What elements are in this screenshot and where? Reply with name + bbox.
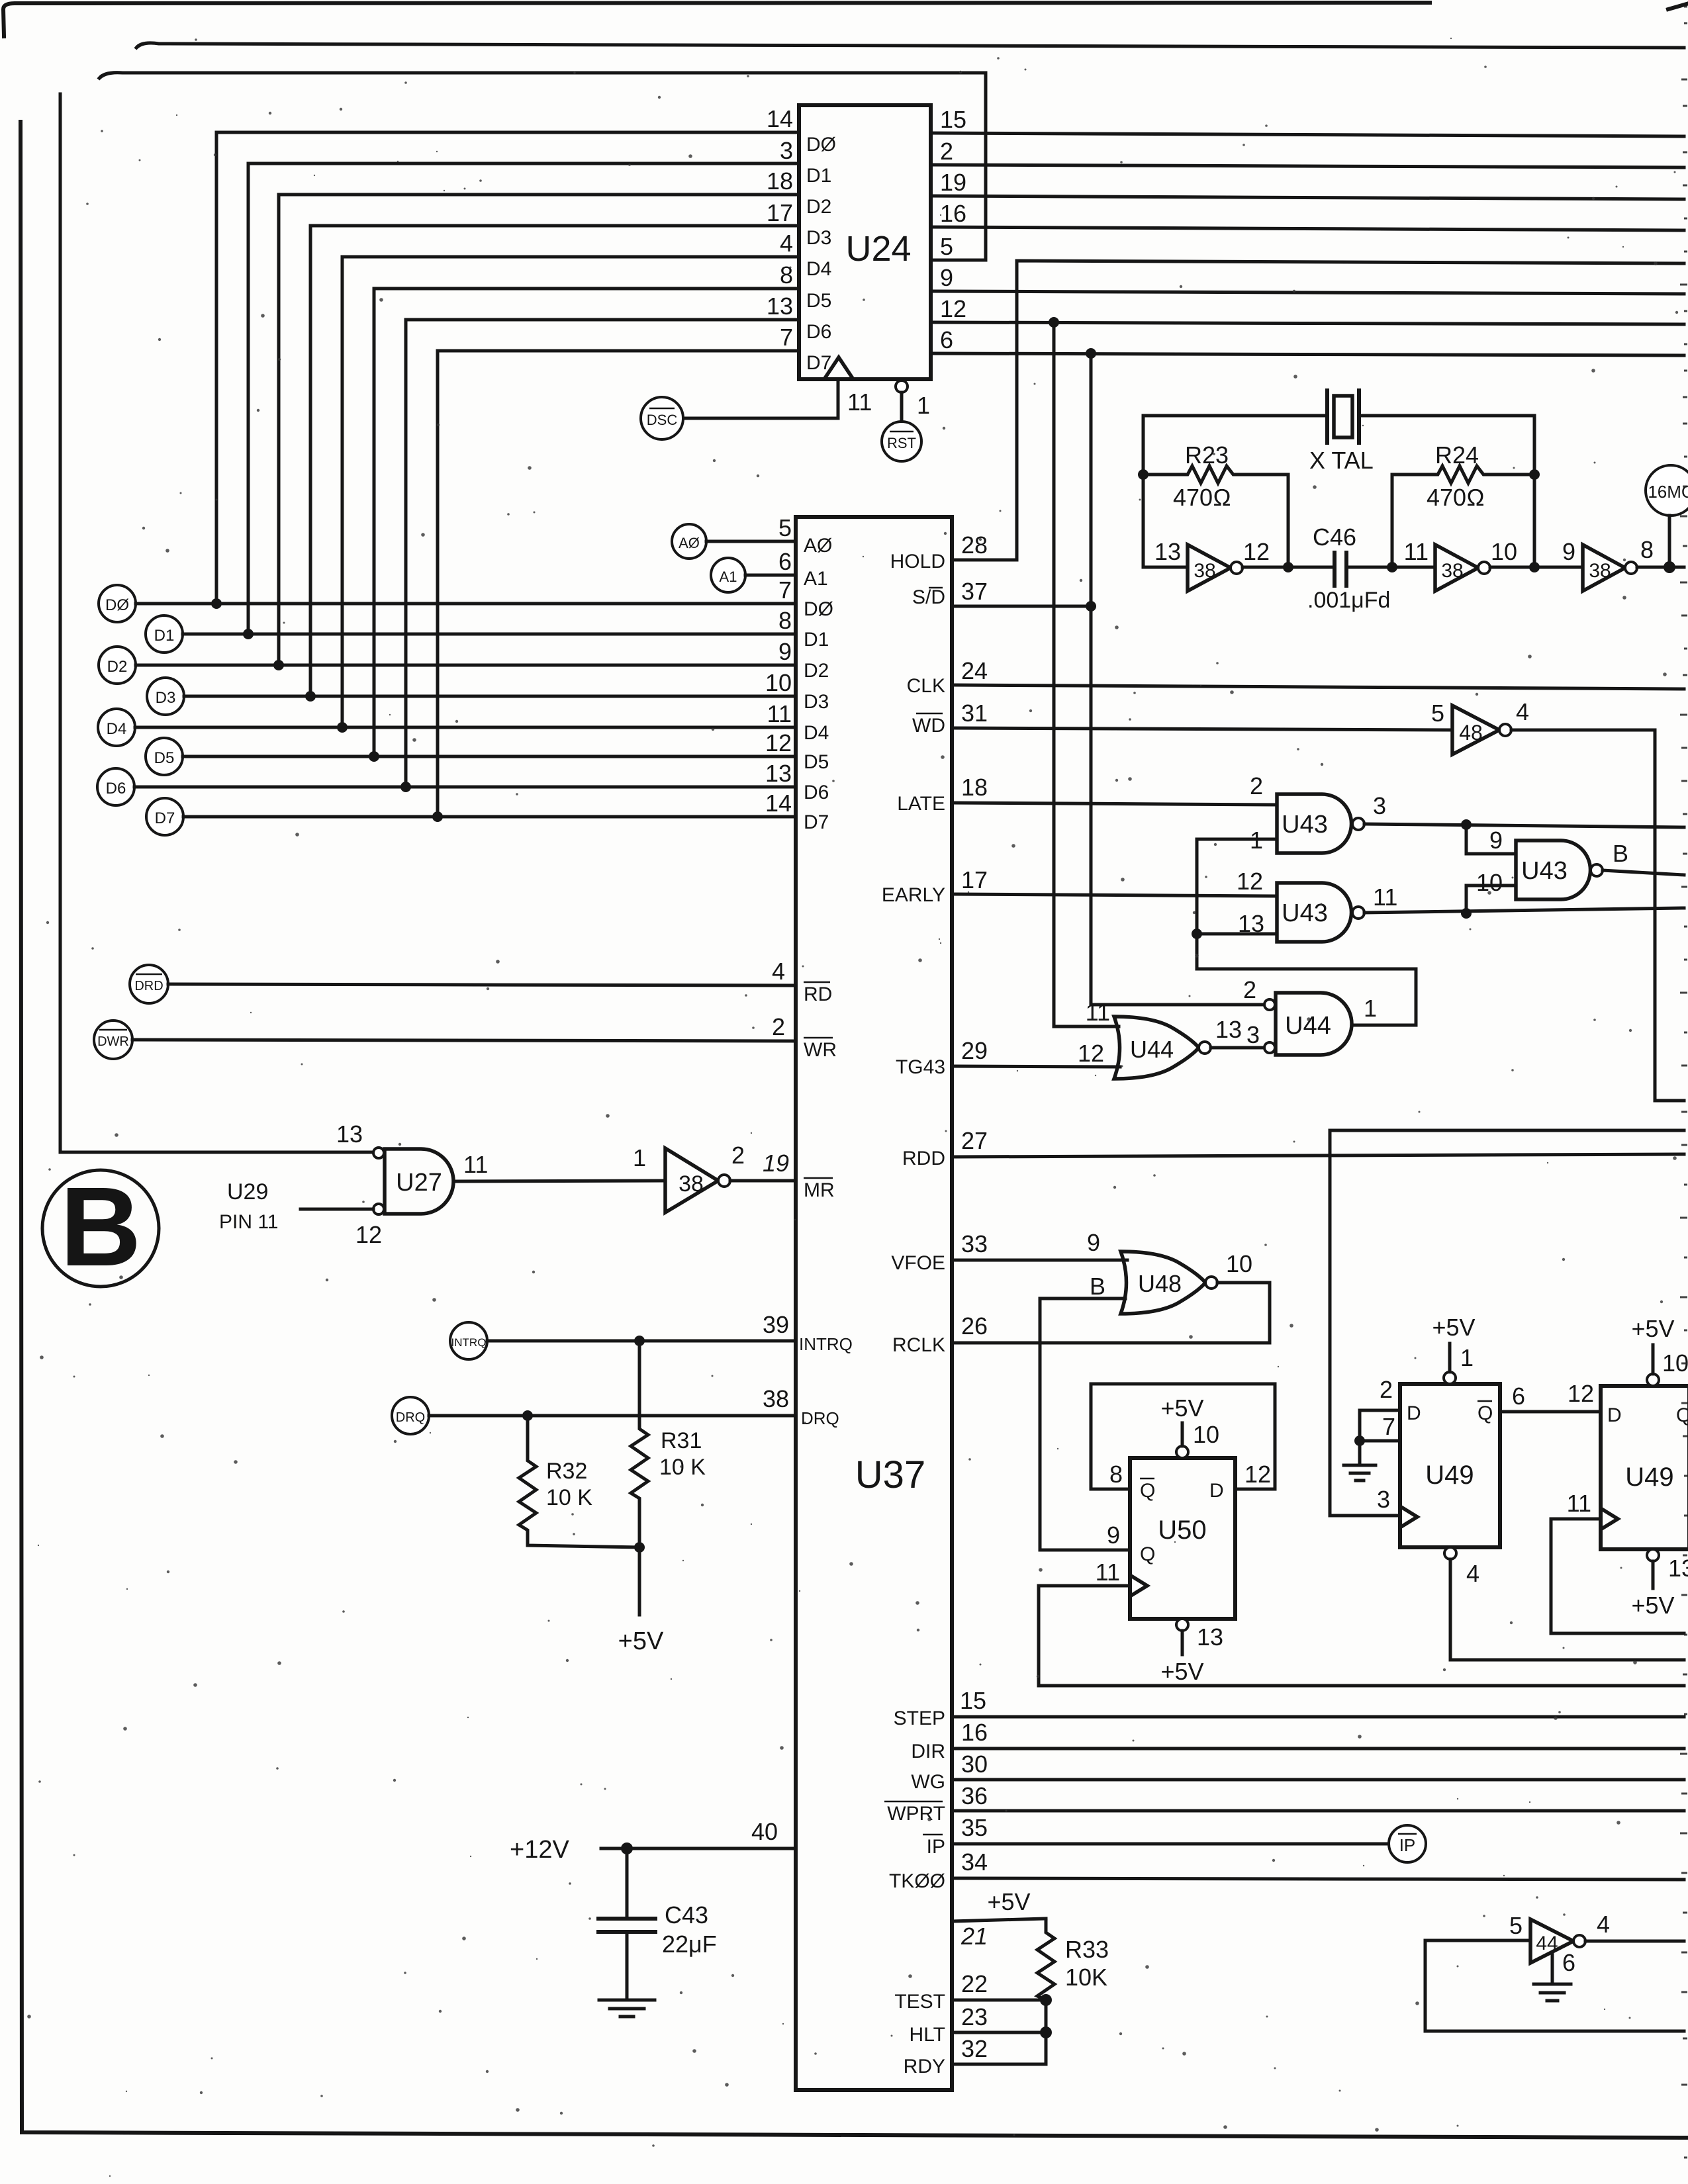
svg-text:D: D: [1607, 1404, 1622, 1426]
wire HLT net U37 pin23: [910, 2003, 1052, 2046]
svg-text:48: 48: [1459, 721, 1483, 745]
wire 16MC net to right edge: [1637, 566, 1684, 569]
svg-text:4: 4: [780, 230, 793, 257]
wire top bus A: [136, 43, 1684, 48]
wire inverter44 output to right edge: [1585, 1940, 1684, 1943]
resistor R33 10K: [1037, 1919, 1109, 2064]
svg-text:14: 14: [765, 790, 792, 817]
capacitor C46 .001uFd: [1307, 523, 1390, 613]
wire RCLK net U37 pin26: [892, 1312, 1270, 1356]
nand U27: [336, 1120, 488, 1248]
wire D3 net: U24 pin17 to bus: [310, 226, 799, 696]
svg-text:PIN 11: PIN 11: [219, 1211, 279, 1233]
svg-text:21: 21: [961, 1923, 988, 1950]
svg-text:U44: U44: [1285, 1012, 1331, 1040]
svg-text:U49: U49: [1625, 1463, 1673, 1492]
svg-text:U24: U24: [845, 229, 911, 269]
svg-text:RD: RD: [804, 983, 832, 1005]
svg-text:DIR: DIR: [911, 1741, 945, 1762]
svg-text:470Ω: 470Ω: [1173, 484, 1231, 511]
svg-text:D2: D2: [804, 660, 829, 682]
svg-text:WD: WD: [912, 715, 945, 737]
inverter 38 osc b (11-10): [1404, 538, 1517, 591]
wire U49a pin4 to right edge: [1444, 1547, 1684, 1660]
wire U49a clock net from right edge: [1330, 1130, 1684, 1516]
wire U43b pin13 input: [1197, 933, 1277, 936]
wire U24 pin12 net to U44 pin11: [931, 322, 1684, 324]
wire LATE net U37 pin18 to U43 pin2: [897, 774, 1277, 815]
svg-text:DRD: DRD: [134, 979, 163, 993]
node RST: U24 pin1 reset: [882, 381, 930, 461]
wire U24 pin16 out: [931, 227, 1684, 230]
wire U27 pin13 input from left bus: [60, 94, 373, 1152]
U24 right pin numbers 15 2 19 16 5 9 12 6: [940, 106, 966, 353]
svg-text:+5V: +5V: [1160, 1394, 1203, 1422]
inverter 38 osc c (9-8): [1562, 536, 1654, 591]
svg-text:RDD: RDD: [902, 1148, 945, 1169]
flip-flop U49 a: [1377, 1376, 1525, 1547]
wire U43c pin9 branch: [1466, 825, 1516, 854]
svg-text:9: 9: [1489, 827, 1503, 854]
svg-text:11: 11: [1404, 538, 1429, 565]
capacitor C43 22uF: [598, 1848, 717, 1999]
wire U49a Q6 to U49b D12: [1500, 1380, 1601, 1412]
svg-text:HLT: HLT: [910, 2024, 945, 2046]
svg-text:1: 1: [917, 392, 930, 419]
power +5V U49b pin13: [1631, 1549, 1688, 1619]
svg-text:MR: MR: [804, 1179, 835, 1201]
ground U49a pins 2,7: [1344, 1441, 1376, 1480]
svg-text:A1: A1: [804, 568, 828, 590]
wire U43b pin11 output to right edge: [1364, 908, 1684, 913]
svg-text:STEP: STEP: [894, 1707, 945, 1729]
wire osc right vertical: [1533, 416, 1536, 567]
svg-text:12: 12: [355, 1221, 382, 1248]
svg-text:D3: D3: [806, 227, 831, 249]
resistor R31 10K pullup: [631, 1341, 706, 1547]
wire U24 pin9 out: [931, 291, 1684, 294]
svg-text:4: 4: [1516, 698, 1529, 725]
wire inverter44 input loop from right edge: [1425, 1940, 1684, 2031]
node INTRQ and wire to U37 pin39: [450, 1311, 853, 1359]
wire EARLY net U37 pin17 to U43 pin12: [882, 866, 1277, 906]
U24 left pin numbers 14 3 18 17 4 8 13 7: [767, 105, 793, 351]
svg-text:7: 7: [780, 324, 793, 351]
svg-text:DØ: DØ: [804, 598, 833, 620]
flip-flop U49 b: [1567, 1386, 1688, 1549]
wire U50 Qbar pin8 to D pin12 feedback: [1091, 1384, 1275, 1489]
svg-text:1: 1: [1460, 1344, 1474, 1371]
wire TK00 net U37 pin34: [889, 1848, 1684, 1892]
svg-text:U37: U37: [855, 1453, 925, 1496]
wire D7 net: U24 pin7 to bus: [438, 351, 799, 817]
svg-text:32: 32: [961, 2035, 988, 2062]
svg-text:4: 4: [1597, 1911, 1610, 1938]
svg-text:1: 1: [633, 1144, 646, 1171]
wire DIR net U37 pin16: [911, 1719, 1684, 1762]
wire U37 pin21 to +5V / R33: [952, 1888, 1046, 1950]
svg-text:DRQ: DRQ: [396, 1410, 425, 1425]
svg-text:7: 7: [778, 576, 792, 604]
svg-text:38: 38: [679, 1171, 704, 1197]
svg-text:D5: D5: [804, 751, 829, 773]
svg-text:40: 40: [751, 1818, 778, 1845]
node A0: [672, 514, 832, 559]
node DSC: U24 pin11 clock input: [641, 379, 872, 439]
svg-text:X TAL: X TAL: [1309, 447, 1374, 474]
node D5: [146, 729, 829, 775]
svg-text:HOLD: HOLD: [890, 551, 945, 572]
svg-text:Q: Q: [1140, 1480, 1155, 1502]
svg-text:D1: D1: [806, 165, 831, 187]
svg-text:13: 13: [1154, 538, 1181, 565]
nand U43 a (pins 2,1 - 3): [1250, 772, 1386, 854]
svg-text:13: 13: [1215, 1016, 1242, 1043]
svg-text:10: 10: [1491, 538, 1517, 565]
svg-text:17: 17: [767, 199, 793, 226]
svg-text:37: 37: [961, 578, 988, 605]
svg-text:3: 3: [780, 137, 793, 164]
svg-text:D6: D6: [106, 780, 126, 797]
svg-text:22μF: 22μF: [662, 1931, 717, 1958]
svg-text:38: 38: [1589, 560, 1611, 582]
svg-text:IP: IP: [927, 1836, 945, 1858]
svg-text:9: 9: [940, 264, 953, 291]
svg-text:D7: D7: [804, 811, 829, 833]
svg-text:U43: U43: [1521, 857, 1568, 885]
svg-text:10 K: 10 K: [659, 1455, 706, 1480]
svg-text:9: 9: [778, 638, 792, 665]
svg-text:D4: D4: [804, 722, 829, 744]
svg-text:4: 4: [772, 958, 785, 985]
svg-text:D7: D7: [806, 352, 831, 374]
wire WPRT net U37 pin36: [884, 1782, 1684, 1825]
wire U49a D pin2 and pin7 tied: [1360, 1410, 1400, 1441]
svg-text:10: 10: [765, 669, 792, 696]
svg-text:13: 13: [767, 293, 793, 320]
wire VFOE net U37 pin33 to U48 pin9: [891, 1229, 1127, 1274]
svg-text:15: 15: [940, 106, 966, 133]
svg-text:DSC: DSC: [647, 412, 678, 428]
svg-text:D5: D5: [806, 290, 831, 312]
ground C43: [599, 2000, 655, 2017]
svg-text:8: 8: [1109, 1461, 1123, 1488]
svg-text:D7: D7: [155, 809, 175, 827]
svg-text:16MC: 16MC: [1648, 482, 1688, 502]
svg-text:12: 12: [1568, 1380, 1594, 1407]
svg-text:INTRQ: INTRQ: [451, 1336, 487, 1349]
svg-text:B: B: [60, 1164, 142, 1290]
svg-text:2: 2: [731, 1142, 745, 1169]
crystal oscillator top wire: [1143, 414, 1327, 418]
svg-text:31: 31: [961, 700, 988, 727]
inverter 48 (WD buffer) pins 5-4: [1431, 698, 1529, 754]
border frame (decorative): [3, 3, 1430, 36]
inverter 38 (MR driver): [633, 1142, 745, 1212]
svg-text:39: 39: [763, 1311, 789, 1338]
svg-text:+5V: +5V: [1432, 1314, 1475, 1341]
svg-text:16: 16: [940, 200, 966, 227]
svg-text:AØ: AØ: [804, 535, 832, 557]
svg-text:26: 26: [961, 1312, 988, 1340]
svg-text:8: 8: [1640, 536, 1654, 563]
wire IP net U37 pin35 to node IP: [923, 1814, 1389, 1858]
svg-text:TG43: TG43: [896, 1056, 945, 1078]
svg-text:TEST: TEST: [894, 1991, 945, 2013]
svg-text:AØ: AØ: [679, 535, 700, 551]
svg-text:RDY: RDY: [904, 2056, 945, 2077]
svg-text:6: 6: [940, 326, 953, 353]
svg-text:D4: D4: [806, 258, 831, 280]
svg-text:D2: D2: [107, 658, 128, 676]
U24 internal labels D0-D7: [806, 134, 836, 374]
svg-text:44: 44: [1536, 1933, 1558, 1954]
svg-text:D2: D2: [806, 196, 831, 218]
node D3: [147, 669, 829, 715]
svg-text:10: 10: [1226, 1250, 1252, 1277]
wire U24 pin15 out: [931, 133, 1684, 136]
svg-text:10: 10: [1193, 1421, 1219, 1448]
svg-text:10 K: 10 K: [546, 1485, 592, 1510]
svg-text:VFOE: VFOE: [891, 1252, 945, 1274]
node D1: [146, 607, 829, 653]
svg-text:A1: A1: [720, 569, 737, 585]
svg-text:10K: 10K: [1065, 1964, 1107, 1991]
wire osc left vertical: [1142, 416, 1145, 567]
nand U44 (pins 2,3 - 1) with input bubbles: [1243, 976, 1377, 1055]
svg-text:12: 12: [940, 295, 966, 322]
svg-text:17: 17: [961, 866, 988, 893]
svg-text:14: 14: [767, 105, 793, 132]
node D0 bus circle and wire to U37 pin7: [99, 576, 833, 622]
svg-text:38: 38: [763, 1385, 789, 1412]
svg-text:9: 9: [1107, 1522, 1120, 1549]
svg-text:WR: WR: [804, 1039, 837, 1061]
svg-text:11: 11: [463, 1151, 488, 1178]
svg-text:S/D: S/D: [912, 586, 945, 608]
wire R23 right to inverter output: [1287, 475, 1290, 567]
svg-text:U50: U50: [1158, 1516, 1206, 1545]
power +5V U49a pin1: [1432, 1314, 1475, 1384]
svg-text:13: 13: [336, 1120, 363, 1148]
wire WG net U37 pin30: [911, 1751, 1684, 1793]
svg-text:U27: U27: [396, 1169, 442, 1197]
inverter 44 (pins 5-4, gnd 6): [1509, 1911, 1610, 1976]
svg-text:33: 33: [961, 1230, 988, 1257]
wire U43a pin3 output to right edge: [1364, 824, 1684, 827]
svg-text:Q: Q: [1140, 1543, 1155, 1565]
svg-text:36: 36: [961, 1782, 988, 1809]
power +5V U50 pin10: [1160, 1394, 1219, 1458]
svg-text:11: 11: [1086, 999, 1110, 1026]
svg-text:D3: D3: [804, 691, 829, 713]
svg-text:+5V: +5V: [618, 1627, 664, 1655]
svg-text:34: 34: [961, 1848, 988, 1876]
svg-text:D5: D5: [154, 749, 175, 767]
node A1: [711, 548, 828, 592]
svg-text:11: 11: [847, 388, 872, 416]
latch U24: [799, 105, 931, 379]
svg-text:4: 4: [1466, 1560, 1479, 1587]
wire D2 net: U24 pin18 to bus: [279, 195, 799, 665]
wire TG43 net U37 pin29 to U44 OR pin12: [896, 1037, 1120, 1078]
wire RDY net U37 pin32: [904, 2035, 1046, 2077]
svg-text:D4: D4: [107, 720, 127, 738]
nand U43 c (pins 9,10 - 8) node B: [1476, 827, 1628, 899]
wire U48 pin B input from U50 Q: [1040, 1298, 1130, 1550]
svg-text:2: 2: [1250, 772, 1263, 799]
wire inverter48 output to right edge: [1511, 730, 1684, 1101]
power +5V for R31/R32: [618, 1542, 664, 1655]
node DWR: wire to U37 WR pin2: [94, 1013, 837, 1061]
svg-text:8: 8: [778, 607, 792, 634]
svg-text:22: 22: [961, 1970, 988, 1997]
svg-text:DWR: DWR: [97, 1034, 129, 1049]
svg-text:16: 16: [961, 1719, 988, 1746]
svg-text:.001μFd: .001μFd: [1307, 588, 1390, 613]
svg-text:30: 30: [961, 1751, 988, 1778]
wire MR net to U37 pin19: [730, 1179, 796, 1183]
resistor R24 470ohm: [1392, 441, 1534, 567]
svg-text:6: 6: [778, 548, 792, 575]
wire CLK net U37 pin24 to right edge: [907, 657, 1684, 697]
svg-text:12: 12: [1244, 1461, 1271, 1488]
svg-text:1: 1: [1364, 995, 1377, 1022]
power +12V to U37 pin40: [510, 1818, 796, 1864]
node DRD: wire to U37 RD pin4: [130, 958, 832, 1005]
wire D4 net: U24 pin4 to bus: [342, 257, 799, 727]
svg-text:WPRT: WPRT: [887, 1803, 945, 1825]
svg-text:11: 11: [1096, 1559, 1120, 1586]
svg-text:INTRQ: INTRQ: [799, 1334, 853, 1354]
svg-text:B: B: [1090, 1273, 1105, 1300]
svg-text:Q: Q: [1676, 1404, 1688, 1426]
svg-text:24: 24: [961, 657, 988, 684]
svg-text:27: 27: [961, 1127, 988, 1154]
node B page label: [42, 1164, 159, 1290]
wire U48 output to RCLK net: [1217, 1283, 1270, 1343]
wire U49b clock pin11 to right edge: [1551, 1519, 1684, 1633]
svg-text:29: 29: [961, 1037, 988, 1064]
wire D0 net: U24 pin14 to bus: [216, 132, 799, 604]
wire U24 pin6 net to U44 pin2: [931, 353, 1684, 355]
svg-text:5: 5: [940, 233, 953, 260]
svg-text:U29: U29: [227, 1179, 268, 1205]
wire U27 out to inverter: [454, 1181, 665, 1181]
svg-text:2: 2: [1380, 1376, 1393, 1403]
wire U44 NOR output to U44 NAND pin3: [1211, 1046, 1264, 1050]
svg-text:3: 3: [1373, 792, 1386, 819]
svg-text:+5V: +5V: [1631, 1315, 1674, 1342]
svg-text:DØ: DØ: [105, 596, 129, 614]
svg-text:11: 11: [1567, 1490, 1591, 1517]
wire D1 net: U24 pin3 to bus: [248, 163, 799, 634]
svg-text:U48: U48: [1138, 1270, 1182, 1297]
wire U43c output B to right edge: [1603, 870, 1684, 875]
power +5V U49b pin10: [1631, 1315, 1688, 1386]
resistor R23 470ohm: [1143, 441, 1288, 511]
svg-text:+5V: +5V: [987, 1888, 1030, 1915]
svg-text:5: 5: [1431, 700, 1444, 727]
node D6: [97, 760, 829, 805]
svg-text:R23: R23: [1185, 441, 1229, 469]
wire D6 net: U24 pin13 to bus: [406, 320, 799, 787]
svg-text:R31: R31: [661, 1428, 702, 1453]
node U29 PIN11 label and wire to U27 pin12: [219, 1179, 373, 1233]
wire S/D net U37 pin37: [912, 578, 1096, 612]
svg-text:13: 13: [765, 760, 792, 787]
node 16MC: [1646, 465, 1688, 567]
svg-text:2: 2: [940, 138, 953, 165]
svg-text:RST: RST: [887, 435, 916, 451]
svg-text:7: 7: [1382, 1413, 1395, 1440]
svg-text:R33: R33: [1065, 1936, 1109, 1963]
svg-text:C46: C46: [1313, 523, 1356, 551]
svg-text:18: 18: [961, 774, 988, 801]
FDC U37: [796, 517, 952, 2090]
svg-text:11: 11: [767, 700, 792, 727]
wire U24 pin2 out: [931, 165, 1684, 167]
svg-text:D1: D1: [154, 627, 175, 645]
crystal XTAL: [1309, 390, 1374, 474]
ground inverter44 pin6: [1534, 1952, 1571, 2001]
svg-text:Q: Q: [1477, 1402, 1493, 1424]
svg-text:28: 28: [961, 531, 988, 559]
svg-text:6: 6: [1562, 1949, 1575, 1976]
svg-text:5: 5: [778, 514, 792, 541]
svg-text:TKØØ: TKØØ: [889, 1870, 945, 1892]
svg-text:+5V: +5V: [1631, 1592, 1674, 1619]
svg-text:B: B: [1613, 840, 1628, 867]
svg-text:D: D: [1209, 1480, 1224, 1502]
svg-text:D: D: [1407, 1402, 1421, 1424]
svg-text:6: 6: [1512, 1383, 1525, 1410]
node D7: [146, 790, 829, 835]
wire RDD net U37 pin27 to right edge: [902, 1127, 1684, 1169]
wire STEP net U37 pin15: [894, 1687, 1684, 1729]
svg-text:U43: U43: [1282, 811, 1328, 839]
svg-text:LATE: LATE: [897, 793, 945, 815]
wire U24 pin19 out: [931, 196, 1684, 199]
power +5V U50 pin13: [1160, 1619, 1223, 1685]
svg-text:12: 12: [1243, 538, 1270, 565]
node IP connector circle: [1389, 1825, 1426, 1862]
svg-text:13: 13: [1668, 1555, 1688, 1582]
svg-text:IP: IP: [1399, 1835, 1416, 1855]
svg-text:12: 12: [1078, 1040, 1104, 1067]
svg-text:19: 19: [940, 169, 966, 196]
svg-text:D3: D3: [156, 689, 176, 707]
resistor R32 10K pullup: [519, 1416, 639, 1547]
svg-text:C43: C43: [665, 1901, 708, 1929]
svg-text:3: 3: [1246, 1021, 1260, 1048]
svg-text:470Ω: 470Ω: [1427, 484, 1485, 511]
svg-text:DRQ: DRQ: [801, 1408, 839, 1428]
svg-text:D6: D6: [806, 321, 831, 343]
svg-text:38: 38: [1194, 560, 1215, 582]
svg-text:38: 38: [1441, 560, 1463, 582]
svg-text:R24: R24: [1435, 441, 1479, 469]
svg-text:12: 12: [765, 729, 792, 756]
node D4: [98, 700, 829, 746]
wire TEST net U37 pin22: [894, 1970, 1052, 2013]
svg-text:D6: D6: [804, 782, 829, 803]
svg-text:CLK: CLK: [907, 675, 945, 697]
wire U43c pin10 branch: [1466, 886, 1516, 913]
wire HOLD net U37 pin28 to right edge: [890, 261, 1684, 572]
svg-text:+12V: +12V: [510, 1836, 569, 1864]
flip-flop U50: [1096, 1458, 1271, 1619]
